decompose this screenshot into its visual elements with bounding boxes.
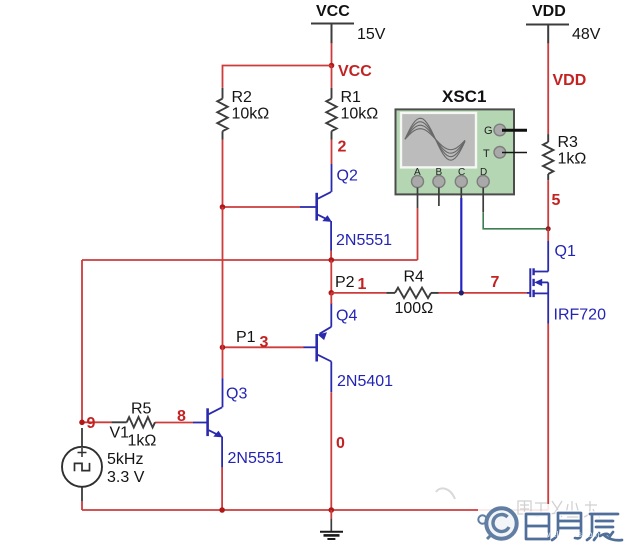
svg-text:5: 5 — [552, 192, 561, 209]
wire node 9 to R5 — [82, 421, 111, 423]
svg-text:www.elecfans.com: www.elecfans.com — [532, 530, 600, 539]
wire VCC to R2 column — [223, 66, 332, 88]
wire long horizontal node1 row — [82, 259, 418, 261]
svg-text:2N5401: 2N5401 — [337, 373, 393, 390]
power symbol VCC — [311, 3, 354, 44]
svg-text:V1: V1 — [110, 425, 130, 442]
svg-text:100Ω: 100Ω — [395, 300, 434, 317]
wire scope D green — [483, 212, 548, 229]
terminal T — [483, 147, 506, 161]
power symbol VDD — [526, 3, 569, 44]
wire Q1 source down — [547, 324, 549, 511]
wire scope C blue — [460, 198, 462, 293]
junction scope C node 7 — [459, 290, 464, 295]
svg-text:3: 3 — [260, 334, 269, 351]
wire G stub — [502, 129, 527, 132]
svg-text:0: 0 — [336, 435, 345, 452]
svg-text:P1: P1 — [236, 329, 256, 346]
resistor R1 — [326, 88, 336, 140]
svg-text:R3: R3 — [558, 134, 579, 151]
svg-text:10kΩ: 10kΩ — [232, 106, 270, 123]
wire R2 column down through P1 to Q3 — [222, 207, 224, 378]
wire scope B stub — [438, 188, 440, 207]
terminal A — [412, 167, 424, 188]
svg-text:10kΩ: 10kΩ — [341, 106, 379, 123]
junction P2 — [329, 290, 335, 296]
junction Q2 base — [220, 204, 226, 210]
watermark — [436, 488, 625, 547]
svg-text:IRF720: IRF720 — [554, 307, 607, 324]
wire Q3 emitter to rail — [221, 467, 223, 510]
source V1 — [62, 428, 102, 501]
junction Q3 emitter rail — [219, 507, 225, 513]
svg-text:1kΩ: 1kΩ — [128, 433, 157, 450]
wire left rail — [81, 260, 83, 422]
svg-text:R2: R2 — [232, 89, 253, 106]
terminal B — [433, 167, 445, 188]
svg-text:2N5551: 2N5551 — [336, 232, 392, 249]
junction P1 — [220, 345, 226, 351]
terminal G — [484, 124, 506, 137]
wire scope C lead dark — [460, 188, 462, 199]
wire R2 bottom down to Q2 base junction — [222, 140, 224, 208]
svg-text:VDD: VDD — [553, 72, 587, 89]
svg-text:XSC1: XSC1 — [442, 87, 486, 106]
wire Q4 base to P1 — [223, 346, 304, 348]
wire scope A lead dark — [417, 188, 419, 209]
mosfet Q1 (IRF720) — [527, 241, 548, 324]
oscilloscope XSC1 body — [396, 109, 515, 194]
svg-text:Q2: Q2 — [337, 168, 358, 185]
svg-text:5kHz: 5kHz — [107, 451, 143, 468]
arrow Q3 emitter — [213, 431, 223, 438]
wire Q2 base (node 2 base wire) — [223, 206, 301, 208]
arrow Q1 body — [534, 279, 542, 286]
scope screen waveforms — [405, 118, 465, 160]
wire P2 down to Q4 emitter — [330, 293, 332, 304]
svg-text:1kΩ: 1kΩ — [558, 151, 587, 168]
svg-text:Q1: Q1 — [555, 243, 576, 260]
arrow Q2 emitter — [322, 215, 332, 222]
ground — [320, 510, 343, 539]
wire P2 to R4 — [331, 292, 386, 294]
junction ground rail — [329, 507, 335, 513]
svg-text:R5: R5 — [131, 401, 152, 418]
svg-text:G: G — [484, 125, 493, 137]
junction node 9 — [79, 420, 85, 426]
wire scope D lead dark — [482, 188, 484, 213]
svg-text:VDD: VDD — [532, 3, 566, 20]
wire R4 to Q1 gate — [439, 292, 528, 294]
wire R1 bottom to Q2 collector — [331, 140, 333, 165]
svg-text:R1: R1 — [341, 89, 362, 106]
junction VCC node — [329, 63, 335, 69]
wire VDD stem red — [547, 43, 549, 134]
svg-text:VCC: VCC — [316, 3, 350, 20]
resistor R3 — [543, 134, 553, 180]
resistor R5 — [111, 417, 155, 427]
transistor Q3 (NPN 2N5551) — [193, 378, 223, 467]
svg-text:Q4: Q4 — [336, 308, 357, 325]
wire R3 bottom to green junction — [547, 180, 549, 229]
svg-text:2: 2 — [338, 139, 347, 156]
terminal D — [477, 167, 489, 188]
resistor R4 — [386, 288, 438, 298]
wire T stub — [502, 152, 527, 154]
terminal C — [455, 167, 467, 188]
junction Q2 emitter node — [329, 257, 335, 263]
svg-text:VCC: VCC — [338, 63, 372, 80]
arrow Q4 emitter — [318, 332, 328, 340]
junction node 5 — [546, 226, 551, 231]
wire bottom rail — [82, 509, 548, 511]
svg-text:R4: R4 — [404, 269, 425, 286]
resistor R2 — [217, 88, 227, 140]
wire R1 top — [331, 66, 333, 88]
svg-text:1: 1 — [358, 276, 367, 293]
svg-text:15V: 15V — [357, 26, 386, 43]
wire node1 down to P2 — [330, 260, 332, 293]
svg-text:2N5551: 2N5551 — [228, 450, 284, 467]
wire scope A to node1 row — [417, 208, 419, 260]
transistor Q2 (NPN 2N5551) — [300, 164, 332, 251]
wire node 8 R5 to Q3 base — [155, 422, 193, 424]
svg-text:3.3 V: 3.3 V — [107, 469, 145, 486]
wire Q4 collector to ground rail — [330, 392, 332, 510]
svg-text:Q3: Q3 — [226, 386, 247, 403]
svg-text:48V: 48V — [572, 26, 601, 43]
wire VCC stem red — [331, 43, 333, 66]
svg-text:P2: P2 — [335, 274, 355, 291]
transistor Q4 (PNP 2N5401) — [304, 303, 332, 392]
wire V1 bottom to rail — [81, 501, 83, 510]
wire Q2 emitter to node 1 rail — [330, 251, 332, 261]
svg-text:T: T — [483, 148, 490, 160]
svg-text:7: 7 — [491, 274, 500, 291]
svg-text:9: 9 — [87, 415, 96, 432]
wire node5 to Q1 drain — [547, 229, 549, 241]
